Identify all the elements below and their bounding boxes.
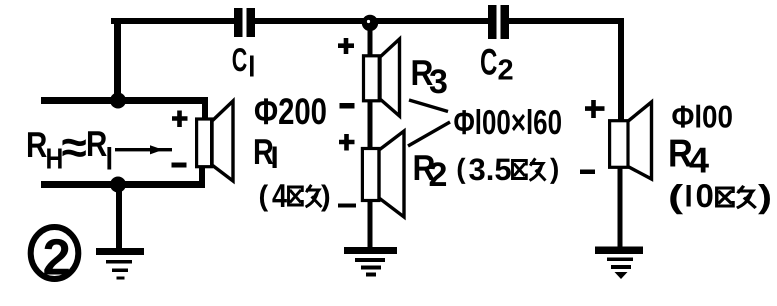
polarity - of R3 [340, 103, 355, 109]
svg-text:R: R [253, 131, 274, 172]
svg-text:C: C [232, 41, 247, 78]
svg-text:3: 3 [429, 63, 448, 101]
label C1 [232, 41, 254, 78]
polarity + of R1 [172, 111, 188, 128]
pointer line from PHI100x160 to R3 [409, 100, 448, 112]
ground: right (below R4) [595, 247, 643, 280]
wire: R3 to R2 [368, 100, 373, 149]
speaker R2 cone [379, 131, 404, 217]
pointer line from PHI100x160 to R2 [408, 122, 450, 146]
wire: bottom junction to ground [116, 185, 122, 249]
polarity + of R3 [338, 38, 354, 54]
wire: R2 to ground [368, 199, 373, 250]
label R2 [413, 147, 448, 194]
label (4 ohm) for R1 [259, 177, 331, 214]
arrow from RH≈R1 label to speaker R1 [115, 145, 172, 154]
junction: top input wire to left vertical [110, 93, 126, 109]
capacitor C1 plates [234, 8, 255, 37]
svg-text:4: 4 [689, 140, 709, 181]
junction: bottom input wire to ground lead [110, 177, 126, 193]
ground: left (input) [96, 248, 144, 280]
wire: top rail left segment (left corner to C1) [111, 18, 236, 24]
speaker R1 cone [212, 101, 233, 181]
wire: top rail middle segment (C1 to C2 through node) [253, 18, 490, 24]
svg-text:Φ200: Φ200 [254, 91, 327, 132]
speaker R3 driver rectangle [364, 56, 380, 101]
polarity + of R4 [585, 100, 605, 118]
svg-text:C: C [480, 42, 497, 83]
svg-text:R: R [86, 123, 107, 164]
svg-text:Φl00: Φl00 [672, 99, 734, 135]
polarity + of R2 [339, 134, 355, 151]
svg-text:2: 2 [43, 229, 71, 286]
svg-text:4: 4 [272, 177, 288, 214]
svg-text:R: R [26, 124, 47, 165]
svg-text:(: ( [259, 181, 269, 213]
label R3 [411, 52, 448, 101]
svg-text:Φl00×l60: Φl00×l60 [454, 104, 563, 142]
svg-text:2: 2 [498, 55, 514, 87]
ground: middle (below R2) [344, 247, 397, 277]
node: top-rail junction terminal above R3 [362, 15, 378, 31]
svg-text:(: ( [456, 153, 466, 184]
svg-text:): ) [758, 178, 772, 214]
svg-text:(: ( [668, 178, 683, 214]
polarity - of R4 [580, 170, 595, 175]
wire: left vertical drop from top rail to input junction [114, 18, 121, 100]
capacitor C2 plates [488, 5, 509, 39]
speaker R3 cone [380, 39, 400, 116]
wire: node to R3 [368, 25, 373, 57]
label (3.5 ohm) for R2 [456, 152, 559, 187]
svg-text:): ) [550, 153, 559, 184]
wire: R1 bottom stub [199, 166, 205, 188]
polarity - of R2 [338, 204, 356, 208]
svg-text:≈: ≈ [62, 121, 87, 173]
wire: input top lead [41, 97, 208, 104]
wire: R4 to ground [618, 167, 623, 249]
label R1 value [253, 131, 277, 172]
label C2 [480, 42, 514, 87]
svg-text:2: 2 [429, 156, 448, 194]
wire: right vertical drop from top rail to R4 [618, 18, 624, 120]
speaker R2 driver rectangle [362, 149, 379, 201]
wire: top rail right segment (C2 to right corner) [507, 18, 624, 24]
svg-text:0: 0 [696, 177, 714, 214]
label (10 ohm) for R4 [668, 177, 772, 214]
speaker R1 driver rectangle [197, 119, 212, 167]
polarity - of R1 [172, 163, 187, 168]
speaker R4 cone [627, 102, 652, 179]
figure number: circled 2 [31, 227, 79, 286]
svg-text:): ) [321, 181, 331, 213]
speaker R4 driver rectangle [610, 121, 628, 168]
wire: R1 top stub [202, 97, 208, 121]
label RH≈R1 (input resistance note) [26, 121, 111, 176]
svg-text:3.5: 3.5 [469, 152, 512, 187]
wire: input bottom lead [41, 181, 204, 188]
label R4 [668, 133, 709, 181]
